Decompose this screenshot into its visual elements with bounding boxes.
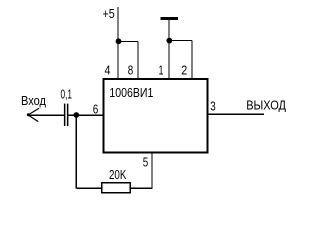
svg-text:6: 6 — [93, 102, 99, 117]
svg-text:+5: +5 — [103, 7, 115, 21]
wire pin 2 vertical — [191, 41, 193, 80]
wire output from pin 3 — [207, 113, 264, 115]
svg-text:20K: 20K — [109, 168, 127, 182]
wire pin 8 vertical — [137, 42, 139, 80]
input arrow — [27, 108, 39, 121]
wire feedback vertical down from input node — [75, 115, 77, 188]
resistor R1 body — [102, 183, 131, 193]
svg-text:3: 3 — [210, 99, 216, 114]
svg-text:Вход: Вход — [21, 94, 47, 108]
wire ground node to pin 2 branch horizontal — [169, 40, 192, 42]
junction dot input node — [73, 112, 79, 118]
wire ground to pin 1 vertical — [168, 19, 170, 79]
junction dot ground node — [166, 38, 172, 44]
wire pin 5 vertical — [151, 153, 153, 189]
svg-text:0,1: 0,1 — [61, 88, 73, 102]
svg-text:1006ВИ1: 1006ВИ1 — [109, 85, 153, 100]
wire capacitor to pin 6 — [68, 114, 103, 116]
wire supply node to pin 8 branch horizontal — [118, 41, 138, 43]
wire resistor to pin 5 — [131, 187, 153, 189]
svg-text:8: 8 — [128, 62, 134, 77]
wire input to capacitor — [28, 114, 64, 116]
ground — [161, 17, 178, 20]
svg-text:1: 1 — [159, 62, 164, 77]
capacitor C1 plates — [64, 104, 69, 126]
svg-text:ВЫХОД: ВЫХОД — [246, 97, 286, 112]
svg-text:2: 2 — [181, 62, 187, 77]
wire bottom left to resistor — [76, 187, 101, 189]
junction dot supply node — [116, 38, 122, 44]
wire +5 supply vertical to pin 4 — [117, 7, 119, 79]
svg-text:5: 5 — [143, 156, 149, 170]
IC U1 1006ВИ1 body — [104, 79, 208, 153]
svg-text:4: 4 — [105, 62, 111, 77]
